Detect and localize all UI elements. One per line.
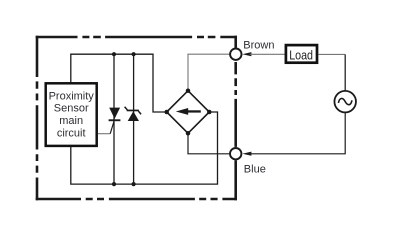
svg-text:Load: Load: [289, 48, 313, 63]
wire: Blue arrow to AC source: [250, 113, 345, 154]
junction dot at SCR branch / bottom bus: [112, 182, 116, 186]
junction dot at SCR branch / top wire: [112, 52, 116, 56]
arrow into Blue terminal: [242, 152, 251, 156]
junction dot at zener branch / top wire: [132, 52, 136, 56]
svg-text:Proximity: Proximity: [49, 90, 95, 102]
wire: SCR branch vertical: [113, 54, 115, 184]
wire: Load to AC source riser junction: [318, 53, 345, 55]
enclosure right edge dashes between Brown and Blue terminals: [234, 62, 237, 147]
Blue terminal: [230, 148, 241, 159]
enclosure right edge segment below Blue terminal: [234, 160, 237, 200]
wire: gate lead from main circuit to SCR: [98, 133, 110, 135]
wire: bridge top vertex to Brown terminal: [188, 54, 230, 90]
proximity sensor main circuit box: [46, 83, 97, 146]
wire: zener branch vertical: [133, 54, 135, 184]
svg-text:circuit: circuit: [57, 128, 86, 140]
enclosure top edge (dashed): [36, 36, 237, 39]
AC source: [334, 91, 356, 113]
wire: main-circuit top lead up and across to SCR/zener/bridge branch: [71, 54, 167, 112]
arrow into Brown terminal: [242, 52, 251, 56]
Brown terminal: [230, 49, 241, 60]
enclosure left edge (dashed): [36, 36, 39, 201]
load box: [286, 45, 317, 63]
svg-text:main: main: [59, 115, 83, 127]
wire: gate diagonal segment: [110, 121, 114, 133]
SCR (thyristor): [109, 108, 121, 122]
zener diode: [125, 107, 142, 121]
diode bridge (diamond): [164, 88, 211, 135]
svg-text:Blue: Blue: [244, 164, 266, 176]
enclosure right edge segment above Brown terminal: [234, 36, 237, 48]
wire: main-circuit bottom lead, bottom bus and riser to bridge right vertex: [71, 112, 218, 184]
wire: Brown arrow to Load: [250, 53, 285, 55]
svg-text:Brown: Brown: [243, 39, 274, 51]
junction dot at zener branch / bottom bus: [132, 182, 136, 186]
svg-text:Sensor: Sensor: [54, 103, 89, 115]
wire: riser down to AC source: [344, 54, 346, 90]
enclosure bottom edge (dashed): [36, 198, 237, 201]
wire: bridge bottom vertex to Blue terminal: [188, 133, 229, 154]
